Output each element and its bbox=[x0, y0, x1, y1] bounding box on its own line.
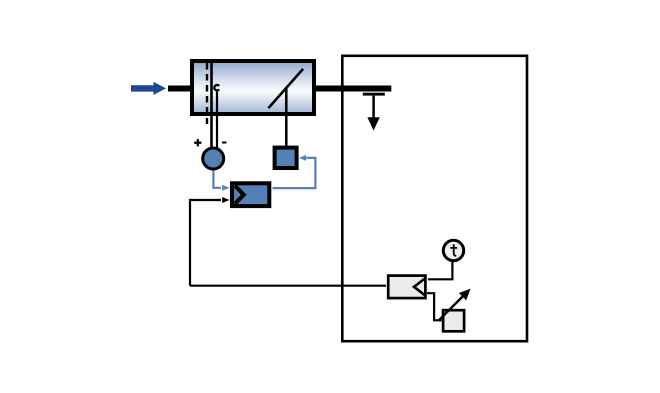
wire transmitter to setpoint unit bbox=[427, 293, 442, 320]
stem pick-off line bbox=[216, 91, 218, 149]
transmitter chevron bbox=[414, 278, 426, 296]
piston plate line bbox=[210, 63, 213, 148]
setpoint adjuster square bbox=[443, 310, 464, 331]
controller chevron bbox=[235, 186, 244, 204]
process boundary box bbox=[342, 56, 527, 341]
summing junction circle bbox=[203, 148, 224, 169]
load force arrow (down) bbox=[372, 96, 375, 120]
adjustment arrow (diagonal) bbox=[439, 297, 463, 321]
wire summing junction to controller (blue) bbox=[213, 171, 221, 188]
minus sign bbox=[222, 142, 226, 144]
spring constant label c bbox=[214, 85, 219, 90]
converter square bbox=[275, 148, 297, 168]
t label bbox=[450, 244, 457, 256]
wiper tap wire bbox=[285, 88, 288, 148]
piston neutral position (dashed line) bbox=[206, 63, 208, 124]
temperature sensor circle bbox=[443, 240, 463, 260]
position sensor wiper (diagonal) bbox=[268, 69, 303, 108]
feedback wire (black) to controller input bbox=[190, 199, 221, 201]
controller block bbox=[232, 183, 269, 206]
actuator cylinder body bbox=[192, 61, 314, 114]
actuator stem rod (right segment) bbox=[316, 86, 392, 92]
actuator stem rod (left segment) bbox=[168, 86, 192, 92]
plus sign bbox=[194, 142, 201, 144]
wire sensor to transmitter bbox=[428, 262, 452, 280]
input signal arrow (dark blue) bbox=[131, 82, 166, 95]
load bar under stem bbox=[363, 93, 385, 96]
wire controller to converter (blue) bbox=[273, 158, 316, 188]
transmitter block bbox=[388, 276, 425, 299]
